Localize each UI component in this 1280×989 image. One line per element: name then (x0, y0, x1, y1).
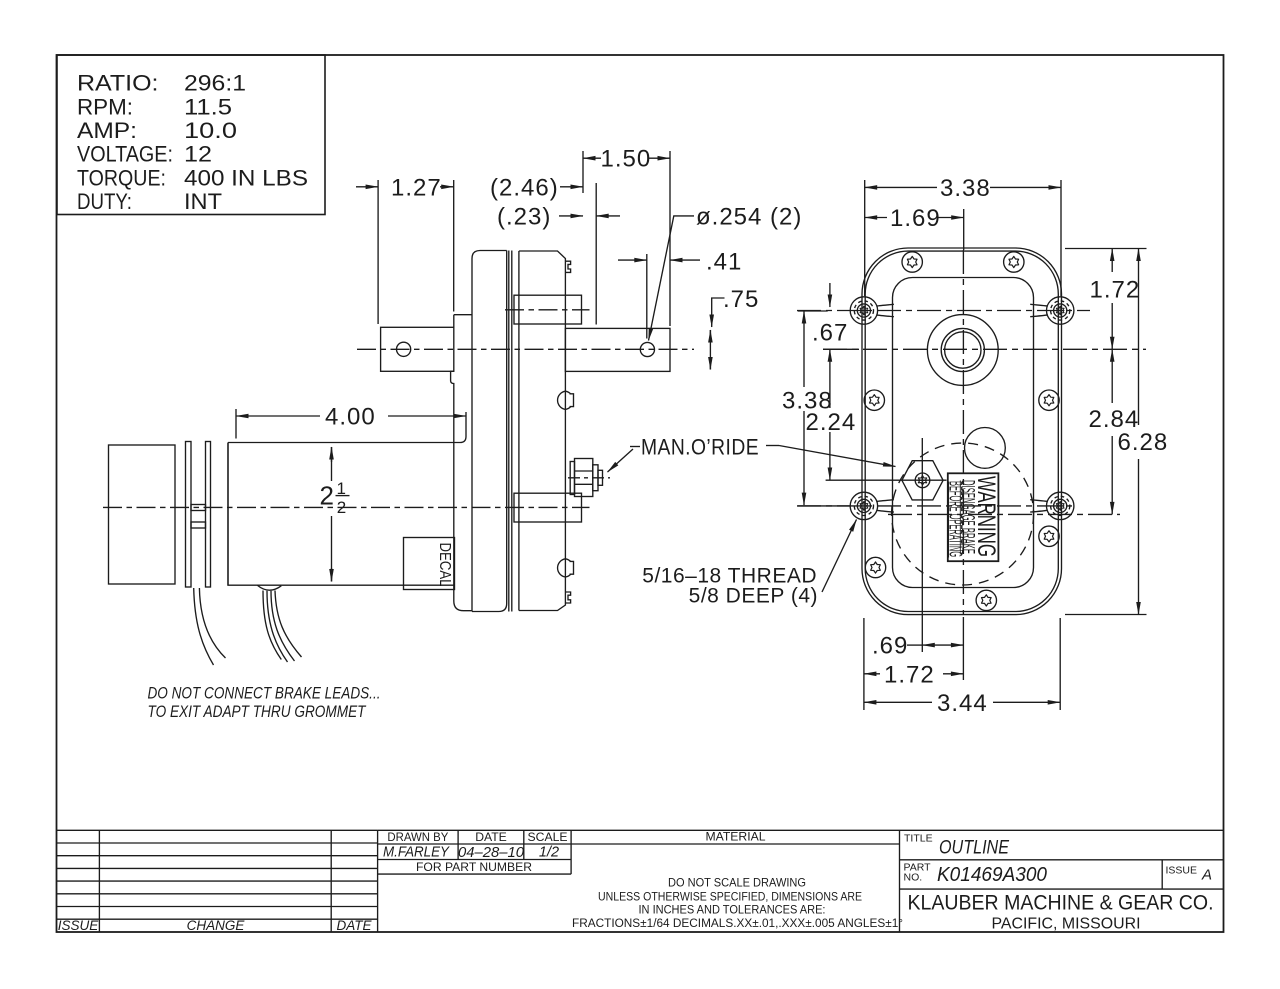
svg-text:11.5: 11.5 (184, 94, 232, 119)
svg-text:ø.254 (2): ø.254 (2) (696, 203, 802, 230)
right face screw head upper (558, 391, 574, 409)
MAN.O'RIDE label (641, 435, 759, 460)
svg-text:2.24: 2.24 (806, 409, 857, 436)
upper bolt boss bar (514, 295, 582, 324)
mounting bolt hole bottom-right (1030, 492, 1074, 519)
brake lead wires (pair) (194, 588, 214, 665)
svg-text:ISSUE: ISSUE (1166, 865, 1198, 877)
left output shaft (381, 327, 454, 371)
gearbox mounting plate (451, 315, 472, 611)
svg-text:K01469A300: K01469A300 (937, 864, 1047, 886)
right face screw head lower (558, 559, 574, 577)
svg-text:TORQUE:: TORQUE: (77, 165, 166, 190)
title block middle (378, 830, 1224, 932)
svg-text:TO EXIT ADAPT THRU GROMMET: TO EXIT ADAPT THRU GROMMET (148, 702, 367, 721)
dim 2.24 (829, 349, 831, 408)
cover screw mid-right (1039, 390, 1059, 410)
spec text (77, 71, 308, 215)
dim 3.38 top (865, 186, 937, 188)
housing bottom tab (565, 592, 570, 603)
cover screw mid-left (864, 390, 884, 410)
gear housing body (519, 251, 566, 611)
motor rear cap (109, 445, 176, 584)
right output shaft (565, 328, 670, 371)
man override center line (568, 477, 610, 479)
svg-text:MATERIAL: MATERIAL (705, 830, 765, 844)
lower bolt boss bar (514, 493, 582, 522)
svg-text:DATE: DATE (336, 918, 372, 933)
motor ring 1 (186, 442, 192, 588)
svg-text:CHANGE: CHANGE (187, 918, 246, 933)
motor body cylinder (228, 412, 466, 585)
svg-text:DO NOT CONNECT BRAKE LEADS...: DO NOT CONNECT BRAKE LEADS... (148, 684, 381, 703)
5/16-18 thread note (642, 565, 818, 608)
dim .75 leader (712, 298, 725, 327)
svg-text:OUTLINE: OUTLINE (939, 838, 1009, 859)
cover screw lower-right (1039, 526, 1059, 546)
svg-text:RATIO:: RATIO: (77, 71, 159, 96)
svg-text:SCALE: SCALE (528, 830, 568, 844)
svg-text:UNLESS OTHERWISE SPECIFIED, DI: UNLESS OTHERWISE SPECIFIED, DIMENSIONS A… (598, 890, 862, 904)
dim 2-1/2 (331, 447, 333, 462)
svg-text:.75: .75 (723, 286, 759, 313)
dim 1.72 bottom (864, 673, 880, 675)
svg-text:3.44: 3.44 (937, 690, 988, 717)
svg-text:DRAWN BY: DRAWN BY (387, 830, 448, 844)
output shaft boss (927, 315, 998, 386)
dim 1.50 (583, 157, 601, 159)
svg-text:400 IN LBS: 400 IN LBS (184, 165, 308, 190)
title block right (900, 860, 1224, 889)
cover screw bottom-center (976, 590, 996, 610)
dim .67 (829, 283, 831, 307)
svg-text:2: 2 (320, 481, 334, 511)
svg-text:NO.: NO. (904, 872, 923, 884)
svg-text:.67: .67 (812, 319, 848, 346)
svg-text:IN INCHES AND TOLERANCES ARE:: IN INCHES AND TOLERANCES ARE: (639, 903, 826, 917)
svg-text:ISSUE: ISSUE (58, 918, 100, 933)
upper bar center line (505, 309, 590, 311)
svg-text:12: 12 (184, 142, 212, 167)
spec box (57, 55, 325, 215)
mounting bolt hole top-left (850, 297, 894, 324)
man override shaft side (570, 462, 574, 495)
svg-text:DECAL: DECAL (436, 543, 453, 587)
cover screw top-left (902, 252, 922, 272)
svg-text:296:1: 296:1 (184, 71, 246, 96)
svg-text:(.23): (.23) (497, 203, 551, 230)
svg-text:1.69: 1.69 (890, 205, 941, 232)
svg-text:M.FARLEY: M.FARLEY (383, 844, 450, 860)
DECAL box (404, 538, 455, 590)
inner raised face (893, 278, 1034, 588)
dim 3.44 (864, 701, 932, 703)
svg-text:3.38: 3.38 (940, 175, 991, 202)
ext lines side view (236, 151, 670, 439)
dim 4.00 (236, 415, 320, 417)
DECAL text (436, 543, 453, 587)
gear cover plate (472, 251, 507, 612)
motor center line (103, 506, 590, 508)
svg-text:1.50: 1.50 (601, 146, 652, 173)
dim 6.28 (1138, 249, 1140, 426)
svg-text:(2.46): (2.46) (490, 174, 559, 201)
motor body left inner line (227, 443, 229, 586)
svg-text:FRACTIONS±1/64 DECIMALS.XX±.0: FRACTIONS±1/64 DECIMALS.XX±.01,.XXX±.005… (572, 916, 903, 930)
revision table (57, 830, 378, 932)
svg-text:RPM:: RPM: (77, 94, 133, 119)
svg-text:6.28: 6.28 (1118, 429, 1169, 456)
dim (2.46) (440, 186, 454, 188)
svg-text:TITLE: TITLE (904, 833, 933, 845)
cover screw top-right (1004, 252, 1024, 272)
svg-text:2: 2 (337, 498, 346, 517)
svg-text:MAN.O’RIDE: MAN.O’RIDE (641, 435, 759, 460)
svg-text:1.72: 1.72 (1090, 277, 1141, 304)
svg-text:5/8 DEEP (4): 5/8 DEEP (4) (689, 585, 818, 608)
svg-text:DATE: DATE (475, 830, 507, 844)
svg-text:FOR PART NUMBER: FOR PART NUMBER (416, 860, 532, 874)
svg-text:KLAUBER MACHINE & GEAR CO.: KLAUBER MACHINE & GEAR CO. (908, 891, 1214, 915)
dim 1.72 right (1111, 249, 1113, 273)
note text (148, 684, 381, 721)
motor wires with grommet (258, 585, 282, 590)
left shaft hole (397, 342, 411, 356)
housing top tab (565, 261, 570, 272)
svg-text:04–28–10: 04–28–10 (458, 845, 524, 861)
manual override hex (902, 461, 943, 500)
terminal bars between rings (191, 505, 206, 511)
motor ring 2 (206, 442, 211, 588)
svg-text:PACIFIC, MISSOURI: PACIFIC, MISSOURI (992, 915, 1141, 932)
dim 1.69 (865, 217, 887, 219)
dim 3.38 left (803, 311, 805, 387)
housing outline (862, 248, 1062, 615)
svg-text:AMP:: AMP: (77, 118, 137, 143)
svg-text:1.72: 1.72 (884, 661, 935, 688)
svg-text:A: A (1201, 867, 1212, 884)
warning label (948, 473, 999, 561)
gasket lines (508, 251, 510, 612)
mounting bolt hole bottom-left (850, 492, 894, 519)
dim (.23) (559, 215, 583, 217)
svg-text:VOLTAGE:: VOLTAGE: (77, 142, 173, 167)
svg-text:1.27: 1.27 (391, 174, 442, 201)
brake release hole (965, 428, 1006, 469)
dim .69 (922, 644, 940, 646)
face ext lines (798, 180, 1147, 710)
dim 1.27 (356, 186, 378, 188)
svg-text:INT: INT (184, 189, 222, 214)
svg-text:10.0: 10.0 (184, 118, 237, 143)
dim .41 (618, 259, 647, 261)
leader dia .254 (649, 216, 695, 341)
svg-text:DO NOT SCALE DRAWING: DO NOT SCALE DRAWING (668, 876, 806, 890)
cover screw lower-left (865, 557, 885, 577)
shaft center line (357, 348, 694, 350)
mounting bolt hole top-right (1030, 297, 1074, 324)
svg-text:DUTY:: DUTY: (77, 189, 132, 214)
svg-text:4.00: 4.00 (325, 404, 376, 431)
gear dashed circle (892, 443, 1034, 585)
svg-text:1/2: 1/2 (539, 844, 559, 860)
right shaft hole (640, 342, 654, 356)
svg-text:.69: .69 (872, 633, 908, 660)
svg-text:.41: .41 (706, 249, 742, 276)
dim 2.84 (1111, 349, 1113, 403)
face view center lines (962, 250, 964, 614)
